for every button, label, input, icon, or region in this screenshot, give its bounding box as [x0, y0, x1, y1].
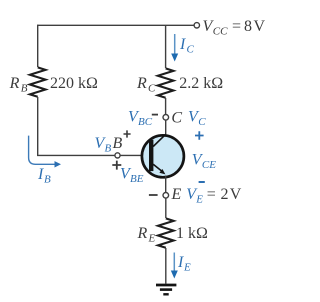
wire base node to transistor — [120, 154, 149, 156]
svg-text:C: C — [187, 44, 195, 56]
wire top horizontal — [38, 24, 194, 26]
arrow IC — [171, 34, 178, 62]
wire RE to ground — [165, 248, 167, 284]
plus below node B — [112, 161, 121, 170]
svg-text:V: V — [230, 186, 242, 203]
svg-text:8: 8 — [244, 18, 252, 35]
transistor base bar — [149, 140, 153, 171]
svg-text:B: B — [113, 135, 123, 152]
ground — [156, 285, 176, 294]
svg-text:E: E — [183, 262, 191, 274]
arrow IE — [171, 253, 178, 279]
label RE — [137, 225, 156, 245]
svg-text:I: I — [179, 36, 186, 53]
label IC — [179, 36, 195, 56]
wire base horizontal — [37, 154, 115, 156]
minus superscript after VBC — [152, 114, 158, 116]
svg-text:CE: CE — [202, 159, 216, 171]
resistor RE — [158, 218, 174, 247]
plus below VC — [195, 131, 204, 140]
label VBC — [128, 108, 153, 128]
node B — [115, 153, 120, 158]
label VB — [95, 135, 112, 155]
label VCE — [192, 152, 216, 172]
transistor emitter arrowhead — [159, 169, 165, 174]
svg-text:C: C — [198, 116, 206, 128]
transistor emitter lead — [153, 164, 163, 172]
label VC — [188, 108, 206, 128]
resistor RB — [30, 67, 46, 96]
arrow IB — [29, 136, 61, 168]
node C — [163, 115, 169, 121]
svg-text:V: V — [254, 18, 266, 35]
svg-text:R: R — [136, 75, 147, 92]
minus before E node — [149, 194, 158, 196]
wire left vertical lower — [37, 97, 39, 155]
node VCC terminal — [194, 23, 199, 28]
svg-text:B: B — [44, 174, 51, 186]
label IB — [37, 166, 51, 186]
label VBE — [120, 166, 144, 186]
svg-text:B: B — [105, 143, 112, 155]
svg-text:1 kΩ: 1 kΩ — [176, 225, 208, 242]
svg-text:=: = — [232, 18, 241, 35]
transistor collector lead — [153, 134, 166, 146]
svg-text:I: I — [177, 254, 184, 271]
svg-text:2: 2 — [221, 186, 229, 203]
transistor Q1 body — [142, 135, 184, 177]
svg-text:B: B — [21, 83, 28, 95]
svg-text:C: C — [148, 83, 156, 95]
label VCC = 8 V — [203, 18, 266, 38]
svg-text:I: I — [37, 166, 44, 183]
minus below VCE — [199, 181, 205, 183]
svg-text:BE: BE — [130, 173, 144, 185]
svg-text:BC: BC — [138, 116, 153, 128]
svg-text:E: E — [195, 194, 203, 206]
svg-text:E: E — [171, 186, 182, 203]
wire transistor to E node — [165, 176, 167, 193]
wire RC branch top — [165, 25, 167, 68]
label RB — [9, 75, 28, 95]
svg-text:CC: CC — [213, 26, 228, 38]
svg-text:220 kΩ: 220 kΩ — [50, 75, 98, 92]
wire left vertical upper — [37, 25, 39, 67]
plus superscript after B — [124, 130, 131, 137]
resistor RC — [158, 68, 174, 97]
svg-text:E: E — [148, 233, 156, 245]
wire E node to RE — [165, 198, 167, 218]
svg-text:=: = — [207, 186, 216, 203]
svg-text:C: C — [171, 110, 182, 127]
svg-text:2.2 kΩ: 2.2 kΩ — [179, 75, 223, 92]
label VE = 2 V — [186, 186, 242, 206]
node E — [163, 193, 169, 199]
wire C node to transistor — [165, 120, 167, 137]
svg-text:R: R — [9, 75, 20, 92]
label IE — [177, 254, 191, 274]
wire RC to C node — [165, 98, 167, 115]
label RC — [136, 75, 156, 95]
svg-text:R: R — [137, 225, 148, 242]
